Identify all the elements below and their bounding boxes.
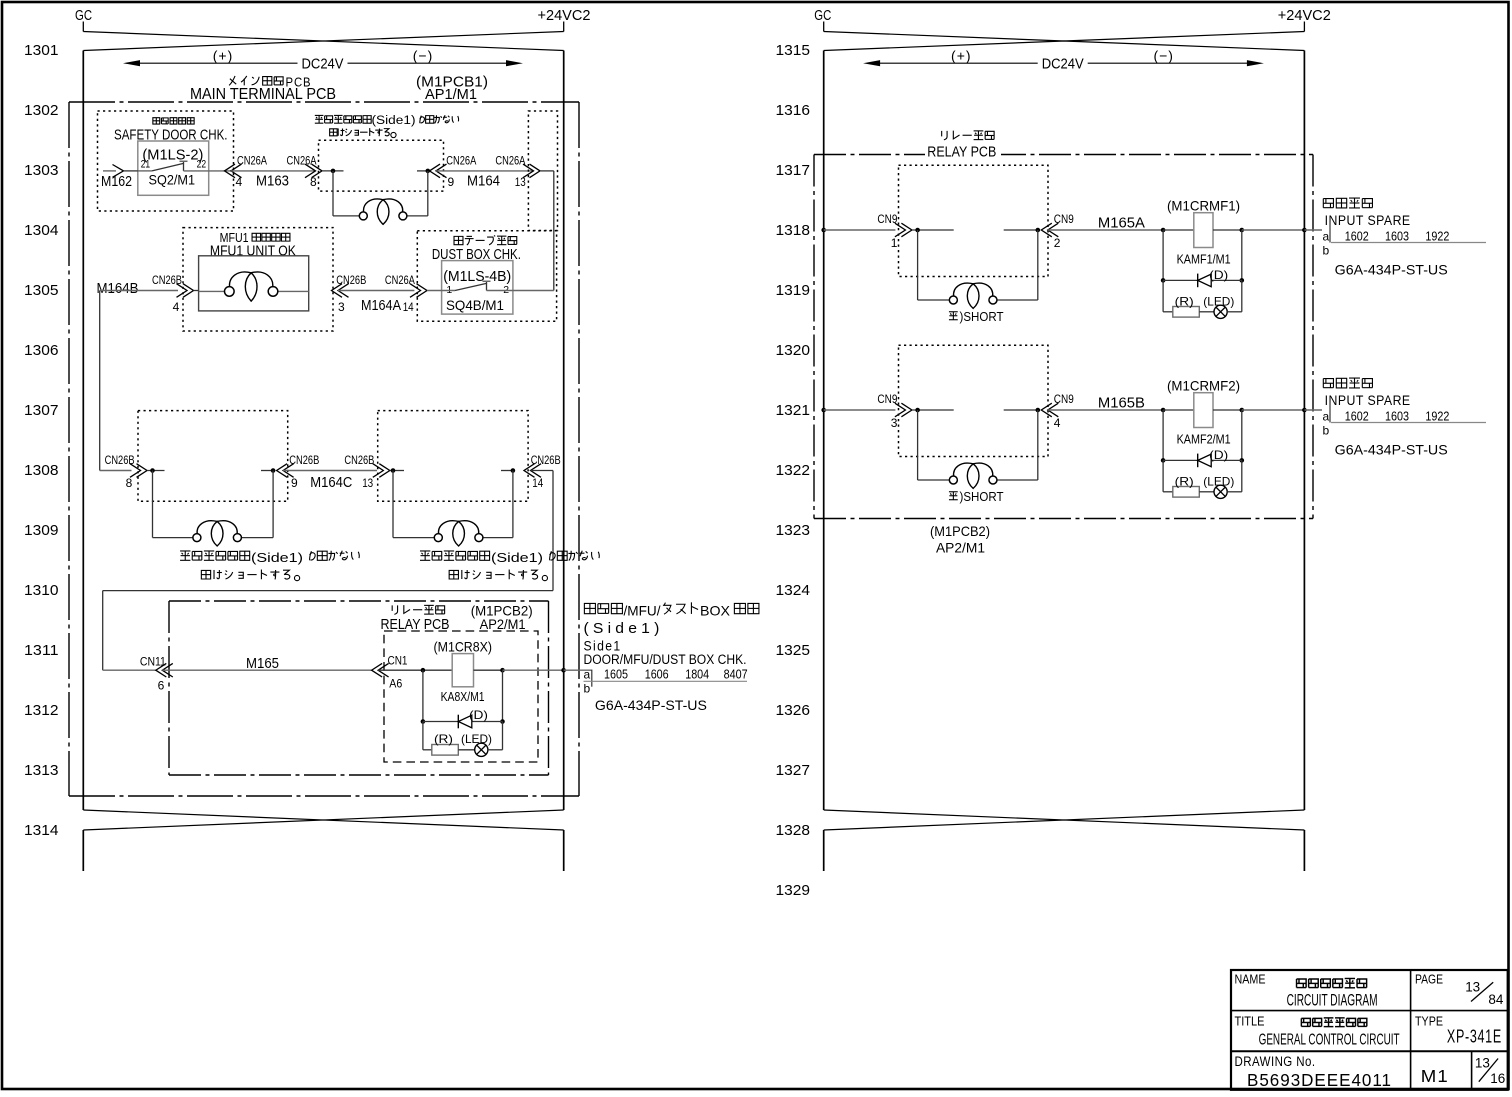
svg-text:CN26B: CN26B <box>531 453 561 467</box>
svg-text:PAGE: PAGE <box>1415 972 1443 987</box>
svg-text:CN9: CN9 <box>1054 392 1074 406</box>
svg-text:1602: 1602 <box>1345 410 1369 424</box>
svg-text:M164C: M164C <box>310 475 352 491</box>
svg-text:(R): (R) <box>1175 294 1194 308</box>
note row 1309 left line2 <box>201 570 210 579</box>
svg-text:4: 4 <box>1054 416 1061 430</box>
svg-text:MFU1 UNIT OK: MFU1 UNIT OK <box>210 243 296 259</box>
svg-text:(LED): (LED) <box>1203 294 1234 308</box>
svg-text:8407: 8407 <box>724 668 748 682</box>
title (Japanese) <box>1300 1018 1302 1026</box>
wire M162 with direction arrow <box>103 170 116 172</box>
wire right bus continuation to next sheet <box>563 830 565 871</box>
wire right bus continuation to next sheet <box>1303 830 1305 871</box>
svg-text:1326: 1326 <box>776 703 811 719</box>
wire corner to CN11 <box>103 669 156 671</box>
svg-text:TITLE: TITLE <box>1235 1014 1265 1029</box>
resistor/LED branch <box>1162 460 1164 491</box>
svg-text:(LED): (LED) <box>461 732 492 746</box>
svg-text:MAIN TERMINAL PCB: MAIN TERMINAL PCB <box>190 86 336 103</box>
note row 1309 right line2 <box>449 570 458 579</box>
svg-text:(Side1): (Side1) <box>584 620 664 637</box>
svg-text:1325: 1325 <box>776 643 811 659</box>
relay coil KAMF1/M1 <box>1161 228 1166 233</box>
svg-text:M165A: M165A <box>1098 216 1145 232</box>
svg-text:1317: 1317 <box>776 163 811 179</box>
svg-text:9: 9 <box>291 476 298 490</box>
external input spare label (Japanese) <box>1322 199 1324 208</box>
node bus junction right <box>1302 408 1307 413</box>
wire M165B <box>1048 409 1163 411</box>
svg-text:1316: 1316 <box>776 103 811 119</box>
wire GC stub <box>823 22 825 32</box>
diode (D) of M1CR8X <box>421 719 426 724</box>
connector CN26B pin 9 <box>277 464 288 478</box>
switch SQ2 contact <box>138 170 152 172</box>
svg-text:1302: 1302 <box>24 103 59 119</box>
svg-text:1603: 1603 <box>1385 230 1409 244</box>
dashed box relay M1CR8X <box>384 631 538 762</box>
svg-text:b: b <box>584 682 591 696</box>
dotted group box DUST BOX CHK <box>417 231 556 321</box>
svg-text:1319: 1319 <box>776 283 811 299</box>
svg-text:14: 14 <box>532 476 543 490</box>
jumper loop symbol (SHORT) <box>917 410 919 480</box>
external ref label Japanese safety door/MFU/dust box <box>584 603 595 613</box>
node junction row1303 right <box>417 170 430 172</box>
svg-text:G6A-434P-ST-US: G6A-434P-ST-US <box>1335 262 1448 278</box>
node junction left <box>912 409 954 411</box>
wire right bus (-) <box>1303 51 1305 811</box>
resistor (R) <box>1173 487 1200 498</box>
connector CN9 pin 3 <box>901 403 912 417</box>
jumper loop symbol (SHORT) <box>917 230 919 300</box>
svg-text:(M1CR8X): (M1CR8X) <box>434 639 493 655</box>
svg-text:M164B: M164B <box>97 281 139 297</box>
svg-text:M164A: M164A <box>361 298 401 314</box>
svg-text:CN26B: CN26B <box>344 453 374 467</box>
note SHORT (Japanese) <box>949 491 958 493</box>
connector CN26A pin 13 <box>530 164 541 178</box>
svg-text:BOX: BOX <box>700 603 731 619</box>
svg-text:84: 84 <box>1488 991 1503 1007</box>
svg-text:2: 2 <box>1054 236 1061 250</box>
svg-text:a: a <box>584 668 591 682</box>
connector CN26B pin 14 <box>524 464 535 478</box>
svg-text:INPUT SPARE: INPUT SPARE <box>1325 213 1411 228</box>
terminal separator line <box>1331 242 1486 244</box>
svg-text:1315: 1315 <box>776 43 811 59</box>
dotted box upper right (dust box connector) <box>528 111 557 231</box>
connector CN11 pin 6 <box>156 663 167 677</box>
wire coil to right bus <box>1242 229 1305 231</box>
svg-text:22: 22 <box>197 159 207 171</box>
dotted jumper box <box>899 165 1049 276</box>
diode branch <box>1162 230 1164 280</box>
external input spare label (Japanese) <box>1322 379 1324 388</box>
wire diode branch verticals <box>422 670 424 721</box>
svg-text:(+): (+) <box>951 48 972 64</box>
svg-text:1327: 1327 <box>776 763 811 779</box>
svg-text:CN26B: CN26B <box>152 273 182 287</box>
svg-text:13: 13 <box>515 175 526 189</box>
svg-text:CN11: CN11 <box>140 655 166 669</box>
svg-text:CIRCUIT DIAGRAM: CIRCUIT DIAGRAM <box>1287 991 1378 1010</box>
title name (Japanese) <box>1296 979 1298 988</box>
svg-text:(M1CRMF1): (M1CRMF1) <box>1167 198 1240 214</box>
wire bottom crossing diagonal 2 <box>824 810 1305 830</box>
node junction left <box>912 229 954 231</box>
wire left bus continuation to next sheet <box>823 830 825 871</box>
svg-text:CN26A: CN26A <box>446 154 476 168</box>
svg-text:CN9: CN9 <box>1054 212 1074 226</box>
svg-text:G6A-434P-ST-US: G6A-434P-ST-US <box>595 697 707 713</box>
label relay pcb (Japanese) <box>391 605 393 611</box>
node junction right <box>1004 409 1038 411</box>
svg-text:1304: 1304 <box>24 223 59 239</box>
wire into relay coil <box>378 669 452 671</box>
wire bottom crossing diagonal 1 <box>824 810 1305 830</box>
svg-text:1320: 1320 <box>776 343 811 359</box>
terminal separator line <box>1331 422 1486 424</box>
svg-text:(+): (+) <box>213 48 234 64</box>
svg-text:DRAWING No.: DRAWING No. <box>1235 1054 1316 1069</box>
note Side1 short row 1309 right line1 <box>420 550 430 552</box>
svg-text:CN9: CN9 <box>877 392 897 406</box>
chain boundary box RELAY PCB M1PCB2 (left) <box>169 600 549 602</box>
jumper loop symbol row 1303 <box>332 171 334 216</box>
wire crossing diagonal +24VC2 to left <box>824 32 1305 51</box>
svg-text:(M1CRMF2): (M1CRMF2) <box>1167 378 1240 394</box>
svg-text:13: 13 <box>1465 979 1480 995</box>
dotted group box MFU1 UNIT OK <box>183 228 333 331</box>
svg-text:1322: 1322 <box>776 463 811 479</box>
svg-text:1606: 1606 <box>645 668 669 682</box>
wire to external Side1 terminal <box>564 669 592 671</box>
svg-text:KAMF2/M1: KAMF2/M1 <box>1177 433 1231 447</box>
svg-text:G6A-434P-ST-US: G6A-434P-ST-US <box>1335 442 1448 458</box>
svg-text:(R): (R) <box>434 732 453 746</box>
svg-text:(D): (D) <box>469 708 488 722</box>
svg-text:(Side1): (Side1) <box>491 550 543 565</box>
switch SQ2/M1 box <box>138 141 209 195</box>
svg-text:a: a <box>1323 230 1330 244</box>
wire coil to right bus <box>1242 409 1305 411</box>
svg-text:RELAY PCB: RELAY PCB <box>927 145 996 161</box>
svg-text:TYPE: TYPE <box>1415 1014 1443 1029</box>
dotted jumper box row 1308 right <box>378 411 528 502</box>
PCB boundary chain box M1PCB1 <box>69 101 579 103</box>
svg-text:(Side1): (Side1) <box>372 115 416 127</box>
svg-text:1328: 1328 <box>776 823 811 839</box>
resistor (R) <box>1173 307 1200 318</box>
svg-text:1307: 1307 <box>24 403 59 419</box>
wire bus to CN9 <box>824 229 896 231</box>
connector CN26B pin 4 <box>183 284 194 298</box>
jumper loop symbol 1308 left <box>152 471 154 538</box>
svg-text:1312: 1312 <box>24 703 59 719</box>
svg-text:1313: 1313 <box>24 763 59 779</box>
svg-text:16: 16 <box>1490 1070 1505 1086</box>
wire M164B <box>100 290 178 292</box>
svg-text:1318: 1318 <box>776 223 811 239</box>
svg-text:CN26A: CN26A <box>237 154 267 168</box>
svg-text:KAMF1/M1: KAMF1/M1 <box>1177 253 1231 267</box>
DC24V supply arrow <box>137 62 298 64</box>
svg-text:CN26A: CN26A <box>495 154 525 168</box>
jumper loop symbol 1308 right <box>392 471 394 538</box>
wire +24VC2 stub <box>1303 22 1305 32</box>
svg-text:b: b <box>1323 244 1330 258</box>
svg-text:3: 3 <box>891 416 898 430</box>
svg-text:1324: 1324 <box>776 583 811 599</box>
LED indicator <box>1214 485 1227 498</box>
svg-text:CN26A: CN26A <box>385 273 415 287</box>
wire bottom crossing diagonal 1 <box>83 810 563 830</box>
relay coil KAMF2/M1 <box>1161 408 1166 413</box>
dotted jumper box row 1308 left <box>138 411 288 502</box>
wire crossing diagonal GC to right <box>824 32 1305 51</box>
svg-text:1314: 1314 <box>24 823 59 839</box>
svg-text:1922: 1922 <box>1425 230 1449 244</box>
svg-text:M1: M1 <box>1421 1066 1449 1086</box>
svg-text:3: 3 <box>338 300 345 314</box>
chain boundary box RELAY PCB (right half) <box>814 154 1313 156</box>
svg-text:)SHORT: )SHORT <box>960 489 1004 504</box>
node junction 1308 c <box>390 470 404 472</box>
svg-text:1301: 1301 <box>24 43 59 59</box>
wire M163 <box>231 170 316 172</box>
svg-text:(M1LS-4B): (M1LS-4B) <box>443 269 511 285</box>
node junction 1308 a <box>147 470 165 472</box>
wire left bus (+) <box>823 51 825 811</box>
connector CN26A pin 4 <box>225 164 236 178</box>
svg-text:8: 8 <box>310 175 317 189</box>
wire right bus (-) <box>563 51 565 811</box>
svg-text:CN26B: CN26B <box>336 273 366 287</box>
current-loop component box MFU1 <box>199 256 309 311</box>
wire +24VC2 stub <box>563 22 565 32</box>
wire 1308 to relay area feed <box>531 470 554 472</box>
svg-text:DOOR/MFU/DUST BOX CHK.: DOOR/MFU/DUST BOX CHK. <box>584 652 747 667</box>
svg-text:(D): (D) <box>1209 268 1228 282</box>
svg-text:8: 8 <box>126 476 133 490</box>
terminal separator line <box>584 680 748 682</box>
wire left bus continuation to next sheet <box>82 830 84 871</box>
svg-text:AP1/M1: AP1/M1 <box>425 87 477 103</box>
wire M164 <box>436 170 534 172</box>
svg-text:14: 14 <box>403 300 414 314</box>
wire bottom crossing diagonal 2 <box>83 810 563 830</box>
svg-text:1605: 1605 <box>604 668 628 682</box>
LED indicator of M1CR8X <box>475 743 488 756</box>
svg-text:1321: 1321 <box>776 403 811 419</box>
connector CN26A pin 9 <box>430 164 441 178</box>
svg-text:M164: M164 <box>467 174 500 190</box>
DC24V supply arrow <box>877 62 1038 64</box>
svg-text:M165B: M165B <box>1098 396 1145 412</box>
svg-text:M163: M163 <box>256 174 289 190</box>
svg-text:KA8X/M1: KA8X/M1 <box>441 690 485 704</box>
note Side1 short row 1309 left line1 <box>180 550 190 552</box>
svg-text:(M1PCB2): (M1PCB2) <box>930 523 990 539</box>
svg-text:SQ2/M1: SQ2/M1 <box>149 172 196 188</box>
connector CN1 pin A6 <box>372 663 383 677</box>
svg-text:M162: M162 <box>101 174 132 190</box>
wire crossing diagonal +24VC2 to left <box>83 32 563 51</box>
svg-text:B5693DEEE4011: B5693DEEE4011 <box>1247 1070 1392 1090</box>
svg-text:CN26A: CN26A <box>287 154 317 168</box>
node junction 1308 d <box>501 470 513 472</box>
svg-text:(LED): (LED) <box>1203 474 1234 488</box>
node junction on right bus <box>561 668 566 673</box>
svg-text:13: 13 <box>362 476 373 490</box>
wire coil to bus <box>474 669 503 671</box>
node bus junction right <box>1302 228 1307 233</box>
svg-text:)SHORT: )SHORT <box>960 309 1004 324</box>
svg-text:(D): (D) <box>1209 448 1228 462</box>
wire to external spare terminal <box>1304 229 1322 231</box>
svg-text:1309: 1309 <box>24 523 59 539</box>
svg-text:6: 6 <box>158 679 165 693</box>
note line2 <box>330 129 338 136</box>
svg-text:1308: 1308 <box>24 463 59 479</box>
svg-text:1602: 1602 <box>1345 230 1369 244</box>
label relay pcb (Japanese) <box>941 131 943 137</box>
svg-text:SQ4B/M1: SQ4B/M1 <box>446 297 504 313</box>
title block frame <box>1231 970 1508 1090</box>
node bus junction left row y=230 <box>821 228 826 233</box>
wire M164C <box>283 470 377 472</box>
svg-text:AP2/M1: AP2/M1 <box>936 540 985 556</box>
node junction right <box>1004 229 1038 231</box>
svg-text:AP2/M1: AP2/M1 <box>480 616 526 632</box>
wire M165A <box>1048 229 1163 231</box>
svg-text:1303: 1303 <box>24 163 59 179</box>
resistor/LED branch <box>1162 280 1164 311</box>
diode branch <box>1162 410 1164 460</box>
svg-text:(Side1): (Side1) <box>251 550 303 565</box>
node junction row1303 left <box>322 170 344 172</box>
svg-text:1305: 1305 <box>24 283 59 299</box>
label safety door (Japanese) <box>153 118 160 124</box>
svg-text:CN1: CN1 <box>388 654 408 668</box>
svg-text:1804: 1804 <box>685 668 709 682</box>
svg-text:1306: 1306 <box>24 343 59 359</box>
switch SQ4B/M1 box <box>442 261 513 315</box>
relay coil KA8X/M1 <box>452 654 473 687</box>
svg-text:1323: 1323 <box>776 523 811 539</box>
connector CN9 pin 2 <box>1041 223 1052 237</box>
connector CN9 pin 1 <box>901 223 912 237</box>
wire row1303 to row1305 feed <box>540 170 554 172</box>
svg-text:a: a <box>1323 410 1330 424</box>
LED indicator <box>1214 305 1227 318</box>
node bus junction left row y=410 <box>821 408 826 413</box>
svg-text:CN26B: CN26B <box>289 453 319 467</box>
svg-text:21: 21 <box>141 159 151 171</box>
svg-text:GENERAL CONTROL CIRCUIT: GENERAL CONTROL CIRCUIT <box>1259 1032 1400 1049</box>
svg-text:4: 4 <box>173 300 180 314</box>
svg-text:DC24V: DC24V <box>1042 56 1084 72</box>
label dust box (Japanese) <box>454 236 463 244</box>
svg-text:(R): (R) <box>1175 474 1194 488</box>
svg-text:DC24V: DC24V <box>302 56 344 72</box>
svg-text:(M1LS-2): (M1LS-2) <box>142 148 203 164</box>
svg-text:XP-341E: XP-341E <box>1447 1027 1502 1047</box>
connector CN26B pin 3 <box>332 284 343 298</box>
connector CN26A pin 8 <box>312 164 323 178</box>
wire M165 <box>162 669 371 671</box>
dotted jumper box row 1303 <box>319 140 444 191</box>
svg-text:13: 13 <box>1475 1055 1490 1071</box>
wire M164A <box>338 290 414 292</box>
svg-text:(−): (−) <box>1153 48 1174 64</box>
svg-text:/MFU/: /MFU/ <box>624 603 661 619</box>
svg-text:CN9: CN9 <box>877 212 897 226</box>
node junction 1308 b <box>261 470 273 472</box>
svg-text:M165: M165 <box>246 656 279 672</box>
note SHORT (Japanese) <box>949 311 958 313</box>
wire M164B vertical to row 1308 <box>99 291 101 471</box>
connector CN26B pin 8 <box>137 464 148 478</box>
svg-text:(−): (−) <box>413 48 434 64</box>
wire feed across top of relay area <box>103 590 553 592</box>
svg-text:9: 9 <box>448 175 455 189</box>
svg-text:NAME: NAME <box>1235 972 1266 987</box>
svg-text:1603: 1603 <box>1385 410 1409 424</box>
wire to external spare terminal <box>1304 409 1322 411</box>
svg-text:b: b <box>1323 424 1330 438</box>
wire bus to CN9 <box>824 409 896 411</box>
jumper loop symbol MFU1 <box>199 290 225 292</box>
connector CN9 pin 4 <box>1041 403 1052 417</box>
connector CN26B pin 13 <box>379 464 390 478</box>
resistor (R) of M1CR8X <box>432 745 459 756</box>
svg-text:1311: 1311 <box>24 643 59 659</box>
svg-text:CN26B: CN26B <box>105 453 135 467</box>
wire crossing diagonal GC to right <box>83 32 563 51</box>
label main terminal PCB (Japanese) <box>229 76 235 85</box>
svg-text:1922: 1922 <box>1425 410 1449 424</box>
wire M164B row 1308 <box>100 470 132 472</box>
svg-text:1329: 1329 <box>776 883 811 899</box>
connector CN26A pin 14 <box>417 284 428 298</box>
dotted group box SAFETY DOOR CHK <box>98 111 234 211</box>
svg-text:GC: GC <box>814 8 831 24</box>
wire SQ4B to feed <box>513 290 554 292</box>
svg-text:INPUT SPARE: INPUT SPARE <box>1325 393 1411 408</box>
wire GC stub <box>82 22 84 32</box>
wire resistor/LED branch <box>422 722 424 750</box>
svg-text:4: 4 <box>236 175 243 189</box>
svg-text:A6: A6 <box>389 677 402 691</box>
wire left bus (+) <box>82 51 84 811</box>
note spare input Side1 (Japanese) line1 <box>315 114 324 116</box>
wire SQ2 to CN26A-4 <box>209 170 231 172</box>
switch SQ4B contact <box>427 290 455 292</box>
svg-text:1: 1 <box>891 236 898 250</box>
dotted jumper box <box>899 345 1049 456</box>
svg-text:1310: 1310 <box>24 583 59 599</box>
